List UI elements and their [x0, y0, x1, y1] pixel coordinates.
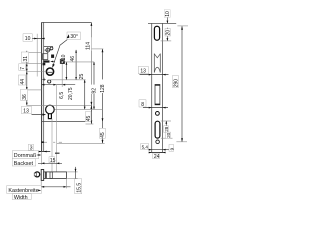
svg-text:10: 10 [165, 11, 171, 17]
latch screw circle-cross [46, 48, 50, 52]
latch filled bar [43, 60, 49, 62]
inner dim line 46 [75, 50, 77, 80]
svg-text:9: 9 [169, 147, 174, 150]
svg-text:15,5: 15,5 [76, 183, 82, 193]
label 45a [85, 112, 92, 122]
label 20b [166, 132, 171, 138]
lock case right edge [90, 22, 92, 121]
label Kastenbreite [7, 186, 42, 195]
svg-text:20: 20 [166, 132, 171, 138]
dimension 10 [23, 34, 45, 42]
svg-text:114: 114 [86, 42, 92, 50]
latch top line [44, 46, 53, 48]
side view hub notch [34, 173, 36, 176]
dim 128 [91, 49, 103, 122]
svg-text:24: 24 [154, 154, 160, 160]
dim 45a [86, 105, 94, 124]
svg-text:20: 20 [165, 30, 171, 36]
lower slot dim lines [161, 121, 173, 138]
label Backset [12, 159, 36, 167]
svg-text:8: 8 [141, 102, 144, 108]
spindle nut square [60, 59, 64, 63]
svg-text:13: 13 [23, 109, 29, 115]
chain arrows [26, 52, 28, 105]
label Dornmass [12, 151, 38, 159]
svg-text:10: 10 [25, 36, 31, 42]
side view inner rect [50, 172, 52, 179]
latch nut filled square [51, 55, 54, 58]
svg-text:Kastenbreite: Kastenbreite [8, 188, 38, 194]
kastenbreite leader arrow [38, 190, 41, 192]
euro cylinder profile [46, 105, 55, 118]
left chain dim line [26, 51, 28, 106]
label 30deg [67, 32, 81, 40]
small screw ring [48, 80, 51, 83]
label 31 [21, 52, 29, 62]
30 degree leader [53, 39, 69, 67]
svg-text:13: 13 [140, 69, 146, 75]
label 15,5 [75, 179, 83, 194]
dim 13 strip [138, 66, 168, 75]
svg-text:44: 44 [20, 79, 26, 85]
label 20 [165, 29, 171, 36]
svg-text:5,4: 5,4 [142, 144, 149, 149]
side view follower hub [35, 172, 40, 177]
dim 13 leader to cylinder [32, 114, 46, 116]
svg-text:Ø10: Ø10 [61, 54, 67, 64]
small circle beside latch [50, 47, 53, 50]
label 45b [100, 128, 107, 138]
strip outline [148, 23, 176, 152]
label 128 [100, 79, 107, 93]
svg-text:128: 128 [100, 84, 106, 93]
svg-text:36: 36 [22, 94, 28, 100]
svg-text:45: 45 [86, 116, 92, 122]
follower ext line [48, 79, 86, 81]
ext spindle axis [61, 64, 63, 87]
svg-text:92: 92 [92, 88, 98, 94]
ext cylinder axis long [55, 85, 57, 172]
nut center ext line [64, 61, 94, 63]
svg-text:31: 31 [23, 56, 29, 62]
svg-text:6,5: 6,5 [59, 92, 65, 99]
label 290 [173, 75, 180, 87]
svg-text:Backset: Backset [14, 161, 34, 167]
extension line for dim10 [36, 34, 38, 77]
dim 92 [93, 62, 95, 110]
dim 20 top slot [161, 28, 172, 41]
dim 15 backset [38, 157, 62, 164]
svg-text:20,75: 20,75 [68, 87, 74, 100]
dim 25 [84, 80, 86, 110]
screw hole circle [156, 112, 160, 116]
svg-text:Width: Width [14, 195, 28, 200]
plate tick at centerline [41, 141, 44, 143]
side view case outline [44, 172, 67, 179]
dim 114 [91, 22, 93, 105]
dim line 20,75 / 6,5 [41, 84, 75, 86]
label 44 [18, 75, 26, 85]
ext cylinder centerline right [55, 108, 103, 110]
latch guide rect [43, 54, 48, 60]
label 36 [21, 89, 29, 100]
Dornmass leader arrow [37, 154, 42, 156]
faceplate front edge [41, 22, 43, 151]
dim 290 [176, 26, 188, 142]
side view faceplate [41, 170, 44, 181]
dim 15,5 [67, 167, 77, 184]
svg-text:290: 290 [173, 79, 179, 88]
side view filled bar [45, 172, 47, 179]
small hole below slot [156, 140, 160, 144]
dimension 3 [28, 144, 50, 152]
narrow slot [155, 85, 160, 105]
svg-text:7: 7 [20, 67, 26, 70]
faceplate back edge [43, 22, 45, 151]
kastenbreite dim [39, 179, 71, 189]
chain extension lines [27, 52, 92, 105]
dim 10 strip top [164, 10, 171, 31]
svg-text:46: 46 [70, 56, 76, 62]
follower inner line [48, 71, 53, 73]
latch arrow [50, 61, 55, 63]
label Width [12, 194, 31, 202]
strip bottom / dim 24 [149, 152, 166, 160]
tick on cylinder axis [55, 153, 60, 154]
svg-text:Dornmaß: Dornmaß [14, 153, 37, 159]
dim 45b [57, 122, 105, 144]
latch cutout [154, 54, 160, 73]
label 9 [169, 145, 174, 152]
spindle nut circle [61, 60, 64, 63]
label 28 [164, 126, 169, 133]
latch filled bar lower [43, 63, 46, 66]
small cross mark [42, 78, 45, 81]
ext plate for dim15 [40, 152, 42, 165]
dim 8 [139, 100, 168, 109]
svg-text:28: 28 [164, 126, 169, 132]
svg-text:45: 45 [100, 132, 106, 138]
inner dim line O10 [66, 62, 68, 80]
top oval slot [154, 26, 159, 40]
svg-text:30°: 30° [70, 34, 78, 40]
lock case [42, 22, 92, 121]
follower hub bold ring [46, 68, 53, 75]
svg-text:25: 25 [79, 74, 85, 80]
ext cylinder tail [51, 119, 53, 172]
dim 5,4 [141, 144, 171, 151]
label 7 [19, 64, 26, 71]
lower oval slot [155, 121, 160, 138]
label 13 left [22, 106, 32, 114]
label 92 [91, 85, 98, 94]
label 114 [86, 37, 92, 50]
centerline dashes y142 [43, 141, 62, 143]
